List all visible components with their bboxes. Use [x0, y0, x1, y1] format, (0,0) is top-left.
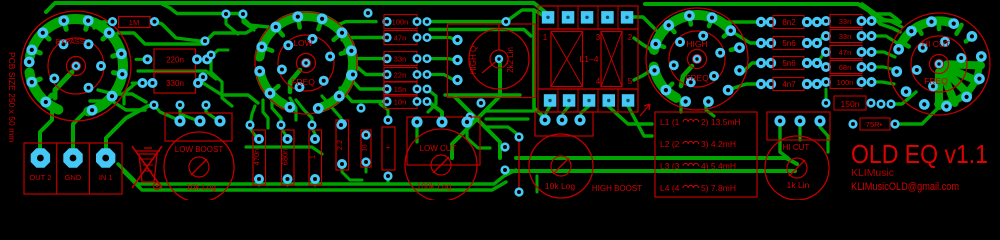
wire bottom bus 2	[124, 172, 506, 190]
wire hf exit 1	[717, 20, 761, 23]
wire between caps	[138, 71, 216, 79]
wire bottom bus 1	[118, 164, 516, 184]
wire caps cross	[246, 147, 322, 154]
svg-text:3) 4.2mH: 3) 4.2mH	[701, 139, 736, 149]
via pads scattered	[348, 8, 372, 112]
wire b rot 4	[872, 67, 895, 70]
wire 75R link	[900, 108, 938, 124]
wire lowfreq arc2	[260, 71, 284, 104]
wire lf cap 22n	[352, 63, 383, 75]
svg-text:10n: 10n	[394, 97, 407, 106]
svg-text:5n6: 5n6	[782, 39, 796, 48]
resistor 1M	[108, 17, 159, 28]
wire 220n right	[208, 50, 228, 59]
wire hf exit 4	[728, 84, 761, 90]
svg-text:L3 (3: L3 (3	[660, 161, 680, 171]
svg-text:KLIMusic: KLIMusic	[851, 167, 894, 179]
wire b rot 3	[872, 52, 895, 57]
wire top bus 2	[160, 3, 268, 27]
capacitor 8n2	[756, 16, 822, 29]
wire comb 6	[290, 98, 296, 120]
svg-text:2k2 Lin: 2k2 Lin	[506, 47, 515, 73]
svg-text:5: 5	[628, 77, 633, 86]
wire lf cap 33n	[345, 50, 383, 59]
capacitor 1u	[308, 130, 322, 185]
wire via cap 2	[281, 128, 288, 139]
svg-text:75R•: 75R•	[866, 120, 883, 129]
svg-text:GND: GND	[65, 173, 82, 182]
via pad above HIGH Q	[501, 17, 510, 26]
svg-text:2.2: 2.2	[335, 140, 344, 150]
svg-text:1: 1	[543, 33, 548, 42]
svg-text:33n: 33n	[839, 32, 852, 41]
svg-text:47n: 47n	[839, 48, 852, 57]
wire hf bot 1	[679, 101, 682, 112]
wire bypass exit mid	[118, 26, 258, 44]
wire highfreq spokes	[655, 15, 741, 91]
wire hicut fan arc	[938, 64, 979, 104]
svg-text:100n: 100n	[837, 78, 854, 87]
wire hicut entry	[862, 4, 898, 20]
svg-text:15n: 15n	[394, 85, 407, 94]
svg-text:2) 13.5mH: 2) 13.5mH	[701, 117, 741, 127]
wire via cap 3	[312, 128, 315, 134]
wire via cap 1	[250, 128, 259, 139]
wire in1 up	[106, 105, 154, 150]
svg-text:8n2: 8n2	[782, 18, 796, 27]
svg-text:HIGH: HIGH	[686, 39, 707, 49]
wire rb bus 1	[516, 158, 797, 164]
svg-text:33n: 33n	[839, 17, 852, 26]
capacitor 680n	[281, 130, 295, 185]
wire highfreq arc2	[654, 67, 677, 98]
wire via243 link	[243, 14, 254, 30]
wire via211 down	[211, 59, 232, 106]
svg-text:L2 (2: L2 (2	[660, 139, 680, 149]
wire highq down	[452, 64, 500, 158]
svg-text:KLIMusicOLD@gmail.com: KLIMusicOLD@gmail.com	[851, 181, 959, 193]
svg-text:100n: 100n	[392, 17, 409, 26]
wire hf bot 2	[706, 101, 714, 116]
wire top bus right	[645, 4, 900, 22]
wire b rot 2	[872, 36, 897, 43]
wire cap 47n r	[427, 38, 456, 41]
wire via lb 1	[154, 105, 180, 121]
wire comb 4	[322, 96, 341, 125]
svg-text:4: 4	[596, 77, 601, 86]
wire elcap bottom	[387, 176, 390, 184]
svg-text:HIGH BOOST: HIGH BOOST	[592, 184, 642, 193]
wire 220n left feed	[136, 58, 145, 61]
resistor 75R	[848, 118, 899, 130]
svg-text:PCB SIZE 250 x 50 mm: PCB SIZE 250 x 50 mm	[7, 52, 17, 142]
wire b rot 5	[872, 82, 894, 84]
wire sq1 fan	[546, 106, 550, 113]
jumper wire	[500, 132, 523, 196]
capacitor electrolytic	[382, 115, 395, 180]
label HIGH BOOST	[592, 184, 642, 193]
wire hicut arc	[902, 21, 954, 42]
svg-text:1: 1	[308, 155, 317, 159]
wire hicutpot 1	[780, 127, 788, 158]
label email	[851, 181, 959, 193]
wire bypass arc low	[30, 73, 59, 110]
svg-text:HI CUT: HI CUT	[783, 143, 810, 152]
wire lf cap 15n	[348, 76, 383, 89]
wire 150n link	[891, 92, 916, 104]
svg-text:5n6: 5n6	[782, 59, 796, 68]
wire cap 15n r	[427, 89, 436, 112]
svg-text:220n: 220n	[166, 55, 184, 64]
capacitor 33n	[821, 30, 877, 43]
svg-text:HIGH Q: HIGH Q	[469, 46, 478, 74]
wire hicutpot 3	[820, 127, 828, 152]
svg-text:2: 2	[628, 33, 633, 42]
wire lf cap 10n	[340, 88, 383, 102]
svg-text:L4 (4: L4 (4	[660, 183, 680, 193]
svg-text:LOW CUT: LOW CUT	[420, 144, 457, 153]
capacitor 33n	[382, 52, 431, 66]
wire cap bottoms	[259, 162, 366, 185]
wire lowcut v3	[467, 126, 490, 148]
rotary switch HI CUT FREQ	[888, 13, 990, 115]
wire comb 1	[272, 96, 281, 125]
wire x534 vertical	[534, 10, 545, 118]
wire rb bus 2	[508, 169, 795, 173]
wire lf cap 47n	[342, 38, 383, 41]
capacitor 47n	[382, 31, 431, 45]
wire y29 bus	[430, 30, 531, 37]
wire sq3 fan	[581, 106, 589, 113]
capacitor 100n	[382, 15, 431, 29]
wire 330n left feed	[132, 82, 141, 85]
capacitor 15n	[382, 82, 431, 96]
capacitor 10n	[382, 95, 431, 109]
label OLD EQ v1.1	[851, 139, 988, 169]
wire highq down2	[455, 97, 500, 158]
capacitor 220n	[143, 49, 213, 70]
via pads near LOW CUT	[465, 98, 485, 121]
label PCB size	[7, 52, 17, 142]
wire top bus left	[46, 3, 548, 16]
wire hf exit 2	[736, 34, 761, 43]
wire via lb 3	[206, 105, 216, 119]
via pads above LOW BOOST	[149, 100, 210, 109]
capacitor 47n	[821, 46, 877, 59]
potentiometer HIGH BOOST 10k Log	[529, 112, 593, 198]
capacitor 5n6	[756, 57, 822, 70]
wire bypass to vias2	[98, 90, 146, 102]
wire pin2 link	[634, 38, 650, 49]
svg-text:HI CUT: HI CUT	[922, 39, 950, 49]
wire sq2 fan	[563, 106, 569, 113]
svg-text:33n: 33n	[394, 54, 407, 63]
wire hicut entry2	[868, 10, 900, 32]
wire y95 bus	[445, 93, 520, 96]
capacitor 68n	[821, 61, 877, 74]
capacitor 22n	[382, 68, 431, 82]
svg-text:10: 10	[362, 144, 369, 152]
svg-text:+: +	[386, 143, 391, 152]
potentiometer LOW BOOST 10k Log	[164, 113, 234, 202]
wire ab 4	[817, 82, 822, 84]
wire comb 2	[250, 106, 255, 125]
svg-text:OUT 2: OUT 2	[29, 173, 51, 182]
wire via lb 2	[180, 105, 196, 120]
wire 330n right	[203, 83, 258, 103]
svg-text:OLD EQ v1.1: OLD EQ v1.1	[851, 139, 988, 169]
capacitor 2.2u	[335, 119, 349, 170]
wire hb horis	[486, 111, 536, 133]
wire ab 3	[817, 52, 824, 63]
inductance value table L1-L4	[655, 112, 757, 197]
svg-text:330n: 330n	[166, 79, 184, 88]
wire b rot 1	[872, 21, 902, 27]
svg-text:470n: 470n	[252, 149, 261, 166]
wire cap 33n r	[427, 59, 455, 60]
wire bypass wiper	[55, 72, 72, 98]
svg-text:FREQ: FREQ	[924, 76, 948, 86]
wire comb 5	[263, 100, 268, 128]
svg-text:10k Log: 10k Log	[545, 181, 576, 191]
svg-text:680n: 680n	[281, 149, 290, 166]
wire out2 up	[40, 108, 52, 150]
potentiometer HIGH Q 2k2 Lin	[448, 24, 536, 98]
svg-text:FREQ: FREQ	[685, 73, 709, 83]
svg-text:22n: 22n	[394, 70, 407, 79]
wire gnd up	[73, 113, 84, 150]
capacitor 470n	[252, 130, 266, 185]
wire cap 10n r	[428, 102, 442, 121]
label KLIMusic	[851, 167, 894, 179]
wire via226 link	[226, 14, 238, 34]
svg-text:1k Lin: 1k Lin	[787, 180, 810, 190]
via pads row y125	[245, 120, 345, 129]
potentiometer HI CUT 1k Lin	[765, 112, 830, 200]
svg-text:5) 7.8mH: 5) 7.8mH	[701, 183, 736, 193]
capacitor 5n6	[756, 37, 822, 50]
capacitor 150n	[821, 96, 895, 110]
capacitor 330n	[138, 73, 204, 94]
svg-text:BYPASS: BYPASS	[55, 37, 84, 46]
svg-text:4) 5.4mH: 4) 5.4mH	[701, 161, 736, 171]
svg-text:100k Log: 100k Log	[417, 181, 452, 191]
connector X1 terminal block OUT2/GND/IN1	[24, 143, 122, 194]
capacitor 10u	[361, 130, 371, 167]
svg-text:68n: 68n	[839, 63, 852, 72]
svg-text:47n: 47n	[394, 33, 407, 42]
svg-text:FREQ: FREQ	[291, 77, 315, 87]
wire ab 1	[817, 21, 822, 22]
wire bypass spokes	[31, 20, 123, 103]
wire highfreq wiper	[681, 66, 692, 86]
svg-text:4n7: 4n7	[782, 80, 796, 89]
wire sq4 fan	[608, 106, 652, 124]
svg-text:3: 3	[596, 33, 601, 42]
capacitor 33n	[821, 15, 877, 28]
svg-text:1M: 1M	[129, 18, 139, 27]
wire lowcut v1	[415, 126, 418, 142]
arrow marker	[640, 104, 650, 116]
wire comb 3	[296, 100, 312, 125]
capacitor 100n	[821, 76, 877, 89]
inductor block L1-4	[538, 6, 638, 112]
wire b col down	[825, 89, 828, 98]
wire elcap top	[380, 104, 388, 118]
svg-text:150n: 150n	[841, 99, 860, 109]
wire rb stub	[536, 176, 539, 192]
wire bypass to vias	[90, 101, 145, 110]
wire lowfreq spokes	[262, 17, 352, 94]
WEEE bin symbol	[132, 146, 162, 190]
wire cap 22n r	[427, 75, 452, 80]
wire via cap 4	[341, 124, 342, 125]
wire 1M descent	[155, 22, 206, 41]
wire highfreq arc	[654, 15, 731, 50]
wire bypass arc top	[30, 19, 123, 111]
rotary switch LOW FREQ	[254, 11, 357, 114]
svg-text:L1 (1: L1 (1	[660, 117, 680, 127]
wire lowfreq wiper	[290, 70, 300, 92]
wire lf cap 100n	[335, 22, 376, 26]
rotary switch HIGH FREQ	[646, 8, 748, 110]
svg-text:LOW BOOST: LOW BOOST	[175, 145, 224, 154]
wire cap bus top	[427, 10, 544, 22]
wire pin5 link	[634, 71, 650, 80]
wire 1M left link	[94, 22, 112, 28]
svg-text:10k Log: 10k Log	[186, 182, 217, 192]
potentiometer LOW CUT 100k Log	[405, 116, 480, 201]
svg-text:IN 1: IN 1	[99, 173, 113, 182]
svg-text:LOW: LOW	[293, 38, 312, 48]
wire hicut spokes	[900, 19, 974, 47]
svg-text:L1–4: L1–4	[580, 54, 599, 64]
capacitor 4n7	[756, 78, 822, 91]
wire hicut fan	[939, 64, 981, 106]
via pads top mid-left	[198, 9, 247, 81]
wire hf exit 3	[741, 63, 761, 74]
wire sq5 to rotary	[633, 17, 656, 30]
wire ab 2	[817, 36, 824, 43]
wire sq5 fan	[628, 106, 652, 136]
rotary switch BYPASS	[21, 11, 131, 121]
wire 330n left down	[124, 83, 136, 104]
wire hicutpot 2	[798, 127, 801, 140]
wire lowfreq arc	[260, 16, 354, 107]
